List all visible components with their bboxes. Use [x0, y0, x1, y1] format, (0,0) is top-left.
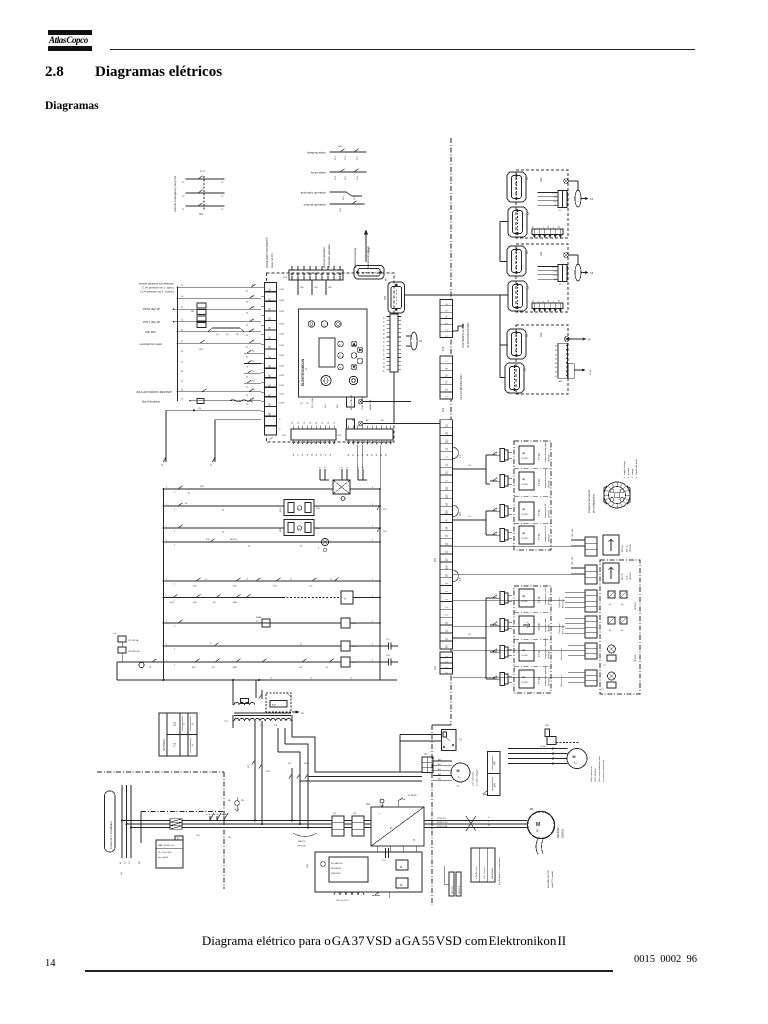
- svg-text:a3: a3: [307, 454, 309, 456]
- strip tab D2: [452, 505, 458, 517]
- connector X05 dsub: [385, 282, 405, 313]
- svg-text:( 2 )=( pressure set 2 : close: ( 2 )=( pressure set 2 : closed ): [140, 291, 174, 294]
- sensor bracket 2: [486, 510, 490, 512]
- svg-text:30.0: 30.0: [343, 195, 345, 200]
- svg-text:b5: b5: [372, 454, 374, 456]
- wire 1X6 to outputs: [393, 372, 395, 424]
- converter control box: [315, 852, 422, 892]
- svg-text:F15: F15: [174, 742, 177, 747]
- svg-text:3~: 3~: [536, 829, 540, 833]
- svg-text:230: 230: [274, 725, 278, 727]
- row 13 wire and drop: [166, 409, 261, 411]
- svg-text:pin configuration: pin configuration: [592, 493, 596, 513]
- K30 pin pairs: [319, 469, 321, 480]
- sensor TT 90 contact wire: [490, 597, 497, 599]
- svg-text:K05: K05: [233, 586, 237, 588]
- svg-text:A02: A02: [438, 768, 441, 771]
- svg-text:Solenoid wire: Solenoid wire: [561, 674, 563, 687]
- svg-text:+5: +5: [346, 467, 348, 469]
- svg-text:AX5: AX5: [559, 380, 564, 383]
- svg-text:1X4: 1X4: [283, 277, 288, 279]
- svg-text:35: 35: [548, 226, 550, 228]
- svg-text:K0: K0: [252, 389, 254, 391]
- svg-text:30: 30: [181, 296, 183, 298]
- svg-text:temperature vessel: temperature vessel: [544, 587, 547, 605]
- supply lines L1 L2 L3: [121, 785, 123, 858]
- svg-text:+5: +5: [319, 467, 321, 469]
- svg-text:dp: dp: [522, 594, 526, 598]
- connector 1X2 bottom pin strip: [282, 426, 336, 445]
- node earth circle A13: [564, 179, 569, 184]
- sensor TT 10 contact wire: [490, 678, 497, 680]
- pin row A13: [532, 229, 563, 235]
- svg-text:230 1F10 1A: 230 1F10 1A: [128, 650, 140, 653]
- relay coil K25: [341, 618, 350, 628]
- svg-text:30: 30: [181, 285, 183, 287]
- connector 1X4 top pin row: [283, 266, 343, 295]
- svg-text:X3: X3: [525, 367, 527, 371]
- svg-text:35: 35: [246, 356, 248, 358]
- svg-text:9: 9: [372, 504, 373, 506]
- svg-text:dp: dp: [522, 531, 526, 535]
- svg-text:M: M: [573, 755, 576, 759]
- svg-text:A11: A11: [539, 251, 543, 256]
- svg-text:9b: 9b: [621, 604, 624, 606]
- digital input wire row 2: [178, 297, 262, 299]
- svg-text:a1: a1: [205, 579, 207, 581]
- pin block A11: [558, 265, 567, 282]
- svg-text:9: 9: [372, 644, 373, 646]
- svg-text:S: S: [318, 548, 320, 550]
- svg-text:12: 12: [221, 196, 224, 198]
- svg-text:CB 1 GR: CB 1 GR: [572, 556, 574, 565]
- svg-text:35: 35: [246, 290, 248, 292]
- svg-text:11: 11: [182, 196, 185, 198]
- svg-text:%: %: [390, 826, 393, 830]
- svg-text:30.1.1: 30.1.1: [552, 193, 557, 195]
- svg-text:30: 30: [384, 316, 386, 319]
- svg-text:2: 2: [174, 531, 175, 533]
- contacts extra rail 9: [262, 659, 267, 662]
- relay K21: [280, 500, 320, 516]
- digital input wire row 8: [244, 363, 261, 365]
- svg-text:1: 1: [166, 487, 167, 489]
- svg-text:X4: X4: [527, 250, 529, 254]
- fan motor M4: [567, 749, 587, 769]
- transformer tap box A41 dashed: [259, 690, 292, 712]
- svg-text:B32: B32: [269, 436, 274, 440]
- svg-text:OPTION: OPTION: [549, 534, 551, 542]
- svg-text:(L): (L): [216, 334, 219, 336]
- nested corner wires to fan circuit: [292, 737, 422, 772]
- svg-text:1: 1: [166, 595, 167, 597]
- svg-text:COM: COM: [279, 403, 284, 405]
- panel arrow keys: [351, 341, 357, 347]
- svg-text:COM: COM: [279, 375, 284, 377]
- svg-text:(S): (S): [228, 837, 231, 839]
- svg-text:a2: a2: [302, 454, 304, 456]
- svg-text:8a: 8a: [609, 630, 612, 632]
- svg-text:E(C)A4/T34: E(C)A4/T34: [331, 862, 343, 865]
- svg-text:(max. 1a 10): (max. 1a 10): [270, 253, 274, 268]
- svg-text:33: 33: [384, 328, 386, 331]
- horn H9: [321, 538, 328, 545]
- svg-text:U: U: [488, 817, 490, 819]
- svg-text:30: 30: [300, 546, 302, 548]
- svg-text:PE: PE: [241, 800, 244, 802]
- svg-text:M: M: [457, 769, 460, 773]
- svg-text:V: V: [210, 643, 212, 645]
- svg-text:a1: a1: [310, 678, 312, 680]
- svg-text:K0: K0: [252, 341, 254, 343]
- svg-text:30.1.1: 30.1.1: [552, 267, 557, 269]
- svg-text:Only connect on: Only connect on: [590, 765, 593, 782]
- sensor DPT16 block 1: [452, 528, 632, 556]
- sensor TT 51 connector: [497, 529, 512, 542]
- svg-text:30.3: 30.3: [345, 175, 347, 180]
- rail bus left: [163, 490, 165, 680]
- component PDT1 contact: [197, 316, 206, 321]
- svg-text:A: A: [191, 723, 195, 725]
- digital input wire row 12: [190, 400, 261, 402]
- max fuse table: [156, 836, 183, 868]
- svg-text:36: 36: [384, 340, 386, 343]
- svg-text:1: 1: [166, 621, 167, 623]
- svg-text:K0: K0: [252, 361, 254, 363]
- svg-text:OPTION: OPTION: [549, 678, 551, 686]
- svg-text:a0: a0: [293, 454, 295, 456]
- svg-text:b3: b3: [362, 454, 364, 456]
- svg-text:MOLEX: MOLEX: [230, 539, 238, 541]
- svg-text:2: 2: [174, 492, 175, 494]
- svg-text:GN: GN: [314, 287, 318, 289]
- terminal strip 1X5: [440, 300, 452, 352]
- relay logic rail 1: [164, 488, 334, 490]
- fan fuse box F21: [442, 730, 463, 751]
- svg-text:1~: 1~: [458, 775, 461, 779]
- connector A12 X4 dsub: [507, 329, 526, 359]
- svg-text:≠: ≠: [542, 301, 545, 302]
- svg-text:( 1 )=( pressure set 1 : ope: ( 1 )=( pressure set 1 : open ): [142, 287, 175, 290]
- motor cable lines: [424, 820, 527, 822]
- digital input wire row 11: [178, 391, 262, 393]
- svg-text:K8: K8: [213, 602, 216, 604]
- svg-text:30: 30: [181, 371, 183, 373]
- svg-text:24V: 24V: [316, 508, 320, 510]
- footer page number: [45, 958, 56, 969]
- panel button warning led: [321, 321, 327, 327]
- svg-text:46: 46: [555, 372, 557, 374]
- fan harness wires: [433, 760, 452, 762]
- svg-text:K0: K0: [252, 319, 254, 321]
- svg-text:(P): (P): [236, 334, 239, 336]
- svg-text:temperature element: temperature element: [544, 468, 547, 488]
- svg-text:MAX. FUSE 1a1: MAX. FUSE 1a1: [158, 844, 175, 847]
- contacts extra rail 5: [256, 578, 261, 581]
- svg-text:1P5/0.5 GN: 1P5/0.5 GN: [437, 822, 448, 824]
- svg-text:1C0: 1C0: [382, 860, 385, 862]
- svg-text:dp: dp: [522, 451, 526, 455]
- svg-text:Manual operation: Manual operation: [322, 247, 326, 268]
- main motor M1: [528, 807, 555, 839]
- svg-text:38: 38: [384, 349, 386, 352]
- panel start button: [321, 376, 331, 386]
- svg-text:Y1: Y1: [601, 689, 604, 691]
- svg-text:30: 30: [181, 330, 183, 332]
- delta box 1: [396, 860, 408, 870]
- svg-text:b4: b4: [367, 454, 369, 456]
- svg-text:X1: X1: [559, 284, 562, 286]
- svg-text:M08: M08: [233, 667, 237, 669]
- svg-text:a6: a6: [321, 454, 323, 456]
- pe node circle: [235, 801, 240, 806]
- module A12 dashed enclosure: [516, 325, 568, 394]
- connector X04 dsub: [354, 266, 387, 283]
- svg-text:30.7: 30.7: [357, 155, 359, 160]
- svg-text:30 TA 4W: 30 TA 4W: [408, 794, 417, 797]
- svg-text:≠: ≠: [552, 227, 555, 228]
- svg-text:W: W: [457, 786, 460, 788]
- svg-text:≠: ≠: [542, 227, 545, 228]
- svg-text:⚠: ⚠: [323, 323, 326, 327]
- svg-text:Control wire: Control wire: [558, 622, 561, 634]
- svg-text:11E: 11E: [191, 311, 195, 313]
- svg-text:35: 35: [548, 300, 550, 302]
- overload contact F21: [200, 340, 205, 343]
- svg-text:36: 36: [558, 300, 560, 302]
- svg-text:32: 32: [384, 324, 386, 327]
- svg-text:(a) KD: (a) KD: [540, 746, 546, 748]
- svg-text:115 1F4 1A: 115 1F4 1A: [128, 639, 139, 642]
- svg-text:(1): (1): [300, 403, 303, 405]
- svg-text:b8: b8: [386, 454, 388, 456]
- svg-text:a7: a7: [325, 454, 327, 456]
- terminal strip 1X1 long: [434, 420, 452, 649]
- svg-text:for correct connection): for correct connection): [602, 760, 605, 782]
- svg-text:30: 30: [181, 361, 183, 363]
- module A11 dashed enclosure: [516, 244, 568, 312]
- svg-text:(K8): (K8): [402, 799, 406, 801]
- svg-text:D2: D2: [304, 422, 306, 424]
- component K8 aux: [262, 619, 270, 627]
- svg-text:temperature inlet: temperature inlet: [544, 526, 547, 542]
- svg-text:(T): (T): [226, 334, 229, 336]
- svg-text:30.4: 30.4: [357, 175, 359, 180]
- svg-text:2 : ground: 2 : ground: [627, 467, 630, 478]
- labels below 1X2: [293, 454, 332, 456]
- mating connector A12: [568, 364, 574, 378]
- svg-text:1K2: 1K2: [383, 531, 387, 533]
- svg-text:DPT16: DPT16: [622, 544, 624, 552]
- fan feed drops: [291, 768, 293, 821]
- svg-text:9: 9: [372, 621, 373, 623]
- svg-text:A: A: [344, 597, 346, 601]
- svg-text:Q15: Q15: [174, 721, 177, 726]
- sensor PT 20 connector: [497, 619, 512, 632]
- svg-text:≈: ≈: [413, 837, 416, 842]
- svg-text:(with PTC shield): (with PTC shield): [551, 871, 554, 888]
- svg-text:F2: F2: [339, 356, 342, 358]
- svg-text:a1: a1: [298, 454, 300, 456]
- svg-text:pressure outlet: pressure outlet: [544, 618, 547, 632]
- svg-text:(See motor data/plate and: (See motor data/plate and: [598, 756, 601, 782]
- phase rails to Q1: [122, 820, 208, 822]
- svg-text:8b: 8b: [621, 630, 624, 632]
- svg-text:42: 42: [384, 365, 386, 368]
- svg-text:39: 39: [384, 353, 386, 356]
- svg-text:COM: COM: [279, 365, 284, 367]
- component PDS1 contact: [197, 303, 206, 308]
- svg-text:b7: b7: [381, 454, 383, 456]
- terminal strip 1X7: [261, 283, 277, 416]
- svg-text:OPTION: OPTION: [635, 654, 637, 662]
- svg-text:C0: C0: [468, 634, 472, 636]
- footer document number: [634, 954, 697, 965]
- svg-text:K0: K0: [252, 296, 254, 298]
- svg-text:2: 2: [174, 584, 175, 586]
- svg-text:temperature oil: temperature oil: [544, 504, 547, 518]
- fan motor 2 wires: [508, 748, 568, 750]
- digital input wire row 5: [178, 331, 262, 333]
- svg-text:X4: X4: [527, 333, 529, 337]
- svg-text:F3: F3: [339, 367, 342, 369]
- svg-text:1F8: 1F8: [199, 349, 204, 351]
- fuse 1F10: [118, 647, 126, 653]
- connector A13 X4 dsub: [507, 172, 526, 202]
- svg-text:PDS1 (Δp) dP: PDS1 (Δp) dP: [143, 307, 160, 311]
- svg-text:OPTION: OPTION: [549, 651, 551, 659]
- rail junction dots: [163, 488, 381, 663]
- svg-text:TT 53: TT 53: [537, 479, 541, 486]
- fan motor 2 supply box: [545, 725, 579, 745]
- svg-text:Δ: Δ: [400, 865, 403, 869]
- relay 1K2 output: [347, 419, 355, 429]
- svg-text:X: X: [279, 429, 281, 431]
- svg-text:Start Feedback: Start Feedback: [142, 400, 161, 404]
- svg-text:A01: A01: [438, 763, 441, 766]
- svg-text:35: 35: [246, 346, 248, 348]
- svg-text:FLUID: FLUID: [522, 458, 529, 460]
- svg-text:D3: D3: [310, 422, 312, 424]
- svg-text:30.2: 30.2: [335, 175, 337, 180]
- switch S3 remote emergency stop: [173, 171, 225, 216]
- fan feed wires: [400, 734, 442, 736]
- svg-text:remote emergency stop S3: remote emergency stop S3: [173, 176, 177, 212]
- svg-text:K03: K03: [170, 602, 174, 604]
- start feedback box: [197, 399, 204, 404]
- svg-text:COM: COM: [279, 324, 284, 326]
- svg-text:A00: A00: [438, 758, 441, 761]
- svg-text:COM: COM: [279, 334, 284, 336]
- sensor TT 51 contact wire: [490, 534, 497, 536]
- svg-text:11: 11: [182, 182, 185, 184]
- svg-text:1TL4: 1TL4: [553, 201, 557, 203]
- svg-text:PDT1 (Δp) dP: PDT1 (Δp) dP: [143, 320, 160, 324]
- svg-text:44: 44: [555, 363, 557, 365]
- phase rails after Q1: [208, 820, 332, 822]
- svg-text:FLUID: FLUID: [522, 601, 529, 603]
- svg-text:41: 41: [555, 350, 557, 352]
- svg-text:Y5: Y5: [603, 665, 606, 667]
- svg-text:9: 9: [372, 487, 373, 489]
- svg-text:2: 2: [174, 509, 175, 511]
- svg-text:K0: K0: [252, 285, 254, 287]
- svg-text:TT 54: TT 54: [537, 453, 541, 460]
- svg-text:40: 40: [384, 357, 386, 360]
- svg-text:K8: K8: [212, 667, 214, 669]
- svg-text:30: 30: [188, 493, 190, 495]
- svg-text:OPTION: OPTION: [549, 480, 551, 488]
- svg-text:30: 30: [181, 307, 183, 309]
- svg-text:V: V: [182, 723, 186, 725]
- svg-text:1TL4: 1TL4: [553, 275, 557, 277]
- svg-text:Imax µA/90: Imax µA/90: [158, 856, 169, 859]
- svg-text:B6: B6: [366, 420, 369, 422]
- svg-text:645: 645: [554, 279, 557, 281]
- svg-text:OPTION: OPTION: [549, 454, 551, 462]
- digital input wire row 6: [178, 342, 262, 344]
- svg-text:CB 1 GR: CB 1 GR: [572, 528, 574, 537]
- relay logic rail 6 dashed option: [164, 597, 284, 599]
- svg-text:C0: C0: [468, 516, 472, 518]
- relay logic rail 8: [164, 645, 342, 647]
- svg-text:3APLR: 3APLR: [298, 840, 305, 843]
- svg-text:K05: K05: [192, 667, 195, 669]
- svg-text:S3: S3: [199, 212, 203, 216]
- wire modbus: [444, 883, 449, 885]
- svg-text:2: 2: [174, 626, 175, 628]
- panel display window: [319, 338, 335, 367]
- svg-text:35: 35: [246, 377, 248, 379]
- svg-text:~: ~: [378, 811, 381, 816]
- relay coil K24: [341, 641, 350, 651]
- jog wire pressure switch: [203, 331, 208, 333]
- svg-text:DATA CTRL: DATA CTRL: [369, 398, 372, 410]
- svg-text:K06: K06: [338, 146, 343, 148]
- svg-text:1X2: 1X2: [282, 435, 287, 437]
- ferrite A11: [575, 264, 581, 281]
- bus contact a: [377, 505, 380, 510]
- svg-text:FLUID: FLUID: [522, 538, 529, 540]
- sensor bracket 3: [486, 597, 490, 599]
- sensor bracket 1: [486, 454, 490, 456]
- digital input wire row 3: [174, 308, 262, 310]
- connector 1X6 pin strip: [384, 314, 402, 372]
- connector strip 1X9a: [332, 813, 344, 836]
- svg-text:30: 30: [185, 503, 188, 505]
- svg-text:d: d: [161, 463, 163, 467]
- digital input wire row 1: [178, 286, 262, 288]
- sensor TT 52 body: [519, 502, 534, 520]
- svg-text:30A: 30A: [446, 565, 449, 570]
- svg-text:35: 35: [246, 325, 248, 327]
- svg-text:1B3: 1B3: [545, 725, 549, 727]
- svg-text:D6: D6: [328, 422, 330, 424]
- svg-text:43: 43: [384, 369, 386, 372]
- svg-text:L2: L2: [125, 861, 127, 864]
- wire bracket A13 to A11: [499, 222, 501, 262]
- sensor TT 10 body: [519, 670, 534, 688]
- capacitor C7: [380, 645, 388, 647]
- start feedback coil wavy: [230, 400, 252, 402]
- svg-text:1X5: 1X5: [442, 346, 445, 351]
- svg-text:1U1: 1U1: [353, 813, 356, 815]
- customer boundary dash dot: [97, 771, 224, 773]
- wire: [356, 445, 358, 469]
- svg-text:1L1: 1L1: [333, 813, 336, 815]
- Atlas Copco logo: [48, 30, 92, 51]
- svg-text:dp: dp: [522, 477, 526, 481]
